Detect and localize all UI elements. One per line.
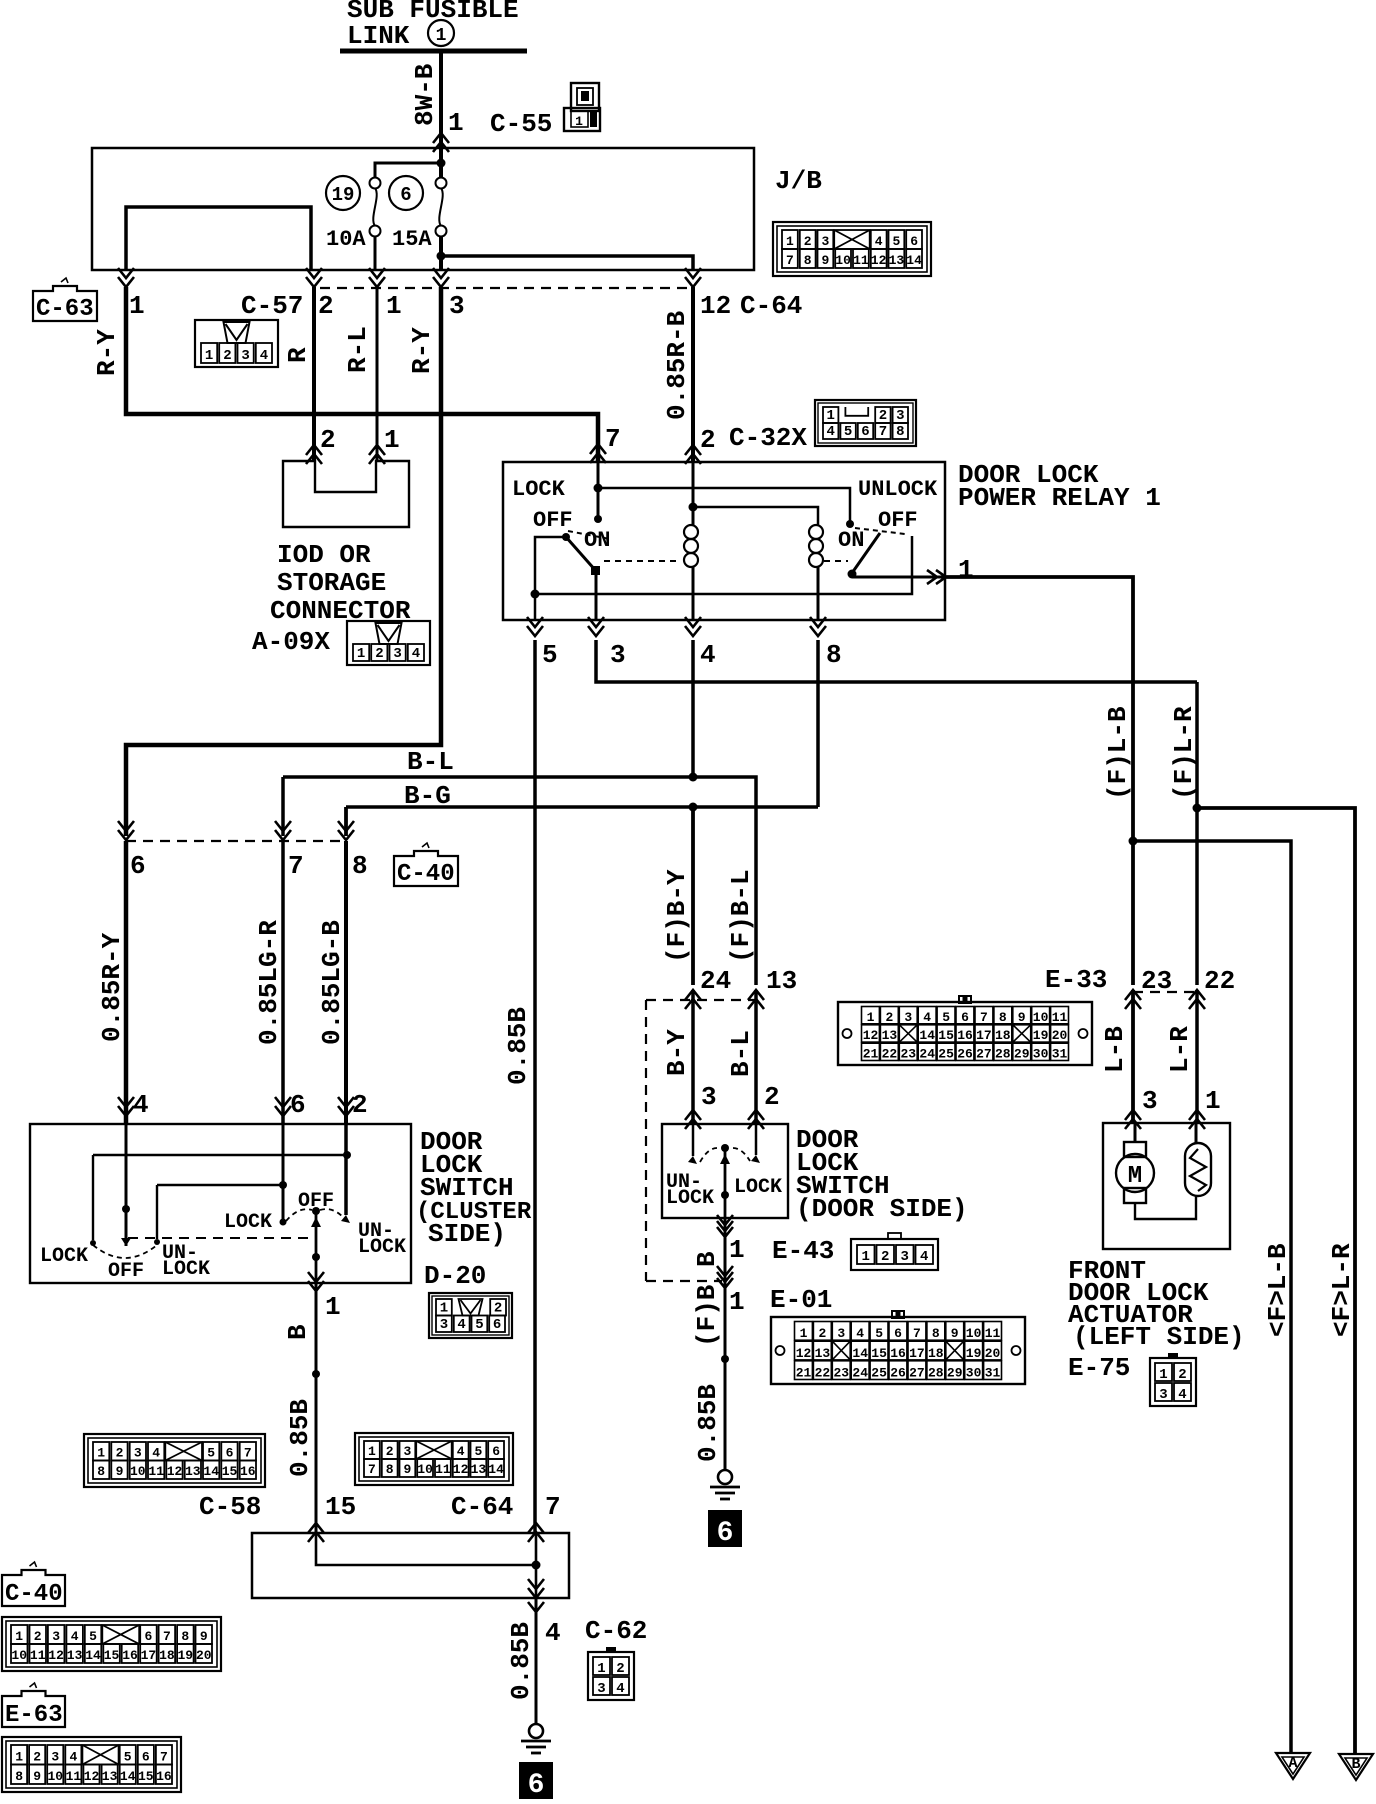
svg-text:3: 3 xyxy=(393,646,401,662)
pin number 2 xyxy=(764,1082,780,1112)
door switch travel arc left xyxy=(700,1148,717,1162)
svg-text:7: 7 xyxy=(545,1492,561,1522)
label ACTUATOR xyxy=(1068,1300,1193,1330)
svg-text:5: 5 xyxy=(942,1010,950,1025)
svg-text:3: 3 xyxy=(52,1629,60,1644)
svg-text:OFF: OFF xyxy=(533,508,573,533)
label SWITCH (door side) xyxy=(796,1171,890,1201)
svg-text:8: 8 xyxy=(386,1462,394,1477)
svg-text:2: 2 xyxy=(320,425,336,455)
internal wire pin7 down xyxy=(535,1533,538,1598)
IOD pin number 2 xyxy=(320,425,336,455)
svg-text:9: 9 xyxy=(33,1769,41,1784)
svg-text:LOCK: LOCK xyxy=(666,1187,714,1210)
cluster right travel arc left xyxy=(286,1209,312,1221)
svg-text:21: 21 xyxy=(796,1366,812,1381)
svg-text:15: 15 xyxy=(138,1769,154,1784)
svg-text:3: 3 xyxy=(821,234,829,249)
svg-text:C-62: C-62 xyxy=(585,1616,647,1646)
svg-text:3: 3 xyxy=(610,640,626,670)
relay blade to pin 3 xyxy=(595,571,598,620)
svg-text:13: 13 xyxy=(102,1769,118,1784)
svg-text:4: 4 xyxy=(700,640,716,670)
cluster wire to LOCK contact xyxy=(93,1154,347,1156)
svg-text:5: 5 xyxy=(875,1326,883,1341)
svg-text:4: 4 xyxy=(616,1681,624,1697)
ground reference 6 (bottom) xyxy=(519,1762,553,1801)
actuator internal wire xyxy=(1135,1196,1196,1219)
connector name C-64 xyxy=(740,291,802,321)
relay mech link right xyxy=(824,560,848,562)
door switch label LOCK(un) xyxy=(666,1187,714,1210)
svg-text:1: 1 xyxy=(958,555,974,585)
junction B-G to (F)B-Y xyxy=(689,803,698,812)
svg-text:20: 20 xyxy=(985,1346,1001,1361)
relay pin 1 arrow xyxy=(927,570,946,584)
door switch pin 3 arrow xyxy=(685,1110,701,1129)
svg-text:E-75: E-75 xyxy=(1068,1353,1130,1383)
svg-text:29: 29 xyxy=(947,1366,963,1381)
connector arrow pin 2 (C-57) xyxy=(306,268,322,287)
svg-text:0.85B: 0.85B xyxy=(693,1384,723,1462)
svg-text:2: 2 xyxy=(34,1629,42,1644)
branch to fuse 19 xyxy=(375,163,441,178)
svg-text:14: 14 xyxy=(488,1462,504,1477)
ground symbol (bottom) xyxy=(521,1724,551,1753)
wire 0.85LG-B upper segment xyxy=(344,807,348,836)
svg-text:E-33: E-33 xyxy=(1045,965,1107,995)
svg-text:1: 1 xyxy=(15,1750,23,1765)
svg-text:2: 2 xyxy=(764,1082,780,1112)
svg-text:10A: 10A xyxy=(326,227,366,252)
connector boundary dashed line xyxy=(320,287,687,289)
svg-text:9: 9 xyxy=(200,1629,208,1644)
wire label (F)B-L xyxy=(726,869,756,963)
C-64 pin 7 arrow xyxy=(528,1523,544,1542)
cluster pin2 wire internal xyxy=(344,1124,348,1215)
svg-text:R-L: R-L xyxy=(343,326,373,373)
connector arrow pin 13 (E-33) xyxy=(748,990,764,1009)
svg-text:2: 2 xyxy=(804,234,812,249)
svg-text:6: 6 xyxy=(528,1770,545,1801)
label SUB FUSIBLE LINK line1 xyxy=(347,0,519,25)
svg-text:18: 18 xyxy=(928,1346,944,1361)
svg-text:8W-B: 8W-B xyxy=(410,63,440,126)
svg-text:31: 31 xyxy=(1052,1047,1068,1062)
svg-text:LOCK: LOCK xyxy=(40,1245,88,1268)
svg-text:7: 7 xyxy=(980,1010,988,1025)
svg-text:R-Y: R-Y xyxy=(92,329,122,376)
svg-text:8: 8 xyxy=(352,851,368,881)
pin number 3 xyxy=(610,640,626,670)
svg-text:10: 10 xyxy=(835,253,851,268)
svg-text:E-63: E-63 xyxy=(5,1702,63,1729)
front door lock actuator box xyxy=(1103,1123,1230,1249)
svg-text:0.85LG-B: 0.85LG-B xyxy=(317,920,347,1045)
svg-text:9: 9 xyxy=(403,1462,411,1477)
svg-text:12: 12 xyxy=(84,1769,100,1784)
relay mech link left xyxy=(604,560,681,562)
relay left OFF contact wire xyxy=(535,537,566,594)
svg-text:16: 16 xyxy=(240,1464,256,1479)
relay output wire to (F)L-B xyxy=(945,577,1133,985)
svg-text:OFF: OFF xyxy=(298,1190,334,1213)
svg-text:7: 7 xyxy=(879,424,887,440)
svg-text:13: 13 xyxy=(882,1028,898,1043)
svg-text:0.85R-Y: 0.85R-Y xyxy=(97,932,127,1042)
relay left ON xyxy=(584,528,610,553)
actuator switch feed wire xyxy=(1195,1123,1198,1143)
relay pin 7 arrow xyxy=(590,444,606,463)
pin number 15 xyxy=(325,1492,356,1522)
svg-text:6: 6 xyxy=(894,1326,902,1341)
door switch pole wire xyxy=(724,1148,727,1218)
wire label (F)B xyxy=(692,1284,722,1347)
door switch pole junction xyxy=(721,1191,729,1199)
relay junction bottom bus xyxy=(531,590,540,599)
svg-text:2: 2 xyxy=(616,1661,624,1677)
connector icon C-58 xyxy=(84,1434,265,1487)
junction inside J/B xyxy=(437,159,446,168)
fuse 19 element xyxy=(370,178,381,237)
cluster left pole arrow xyxy=(121,1238,131,1246)
svg-text:1: 1 xyxy=(861,1249,869,1265)
svg-text:E-01: E-01 xyxy=(770,1285,832,1315)
svg-text:0.85B: 0.85B xyxy=(503,1007,533,1085)
svg-text:1: 1 xyxy=(440,1301,448,1317)
wire B-L horizontal and (F)B-L down xyxy=(283,777,756,985)
wire R-Y pin3 down and across xyxy=(126,287,441,836)
svg-text:2: 2 xyxy=(223,348,231,364)
off-page reference triangle A xyxy=(1276,1753,1310,1779)
svg-text:3: 3 xyxy=(403,1444,411,1459)
label FRONT xyxy=(1068,1256,1146,1286)
connector icon E-63 xyxy=(2,1737,181,1792)
connector arrow pin 8 (C-40) xyxy=(338,821,354,840)
svg-text:6: 6 xyxy=(910,234,918,249)
wire label 0.85R-Y xyxy=(97,932,127,1042)
svg-text:15: 15 xyxy=(938,1028,954,1043)
cluster label OFF left xyxy=(108,1260,144,1283)
svg-text:(F)B-Y: (F)B-Y xyxy=(662,869,692,963)
svg-text:4: 4 xyxy=(412,646,420,662)
door switch label LOCK xyxy=(734,1176,782,1199)
svg-text:4: 4 xyxy=(133,1090,149,1120)
relay label LOCK xyxy=(512,477,566,502)
wire B-L from relay pin4 xyxy=(691,640,695,777)
svg-text:2: 2 xyxy=(879,408,887,424)
svg-text:3: 3 xyxy=(440,1317,448,1333)
relay coil feed to unlock coil xyxy=(693,507,818,525)
svg-text:2: 2 xyxy=(881,1249,889,1265)
connector name C-55 xyxy=(490,109,552,139)
wire 0.85B from relay pin5 to C-64 xyxy=(533,640,537,1533)
wire B-G from relay pin8 xyxy=(816,640,820,807)
actuator motor xyxy=(1116,1142,1154,1203)
connector icon C-62 xyxy=(588,1647,634,1700)
svg-text:28: 28 xyxy=(928,1366,944,1381)
pin number 8 xyxy=(352,851,368,881)
svg-text:9: 9 xyxy=(116,1464,124,1479)
svg-text:25: 25 xyxy=(938,1047,954,1062)
svg-text:7: 7 xyxy=(288,851,304,881)
pin number 24 xyxy=(700,966,731,996)
label SIDE) xyxy=(428,1219,506,1249)
svg-text:24: 24 xyxy=(852,1366,868,1381)
svg-text:C-58: C-58 xyxy=(199,1492,261,1522)
pin number 13 xyxy=(766,966,797,996)
connector arrow C-55 pin 1 xyxy=(433,133,449,152)
svg-text:3: 3 xyxy=(51,1750,59,1765)
svg-text:16: 16 xyxy=(890,1346,906,1361)
fuse 6 number circle xyxy=(389,176,423,210)
joint box at bottom xyxy=(252,1533,569,1598)
junction inside J/B lower xyxy=(437,252,446,261)
svg-text:11: 11 xyxy=(853,253,869,268)
svg-text:1: 1 xyxy=(1159,1367,1167,1383)
svg-text:1: 1 xyxy=(729,1235,745,1265)
svg-text:15: 15 xyxy=(104,1648,120,1663)
connector arrow pin 1 (C-57) xyxy=(369,268,385,287)
svg-text:3: 3 xyxy=(837,1326,845,1341)
connector label box C-40 (bottom) xyxy=(2,1562,65,1608)
svg-text:5: 5 xyxy=(475,1317,483,1333)
actuator pin 3 arrow xyxy=(1125,1110,1141,1129)
relay bottom bus to right OFF contact xyxy=(535,536,912,594)
svg-text:C-32X: C-32X xyxy=(729,423,807,453)
connector name C-57 xyxy=(241,291,303,321)
svg-text:14: 14 xyxy=(919,1028,935,1043)
door switch pole arrow xyxy=(720,1154,730,1164)
svg-text:4: 4 xyxy=(457,1317,465,1333)
wire label <F>L-B xyxy=(1263,1243,1293,1337)
svg-text:15: 15 xyxy=(871,1346,887,1361)
pin number 4 xyxy=(133,1090,149,1120)
svg-text:3: 3 xyxy=(449,291,465,321)
connector arrow pin 22 (E-33) xyxy=(1189,990,1205,1009)
svg-text:4: 4 xyxy=(545,1618,561,1648)
pin number 1 xyxy=(386,291,402,321)
svg-text:30: 30 xyxy=(966,1366,982,1381)
svg-text:12: 12 xyxy=(700,291,731,321)
svg-text:LOCK: LOCK xyxy=(224,1211,272,1234)
fusible link bus bar xyxy=(340,49,527,54)
svg-text:4: 4 xyxy=(875,234,883,249)
wire label 0.85B (relay pin5 wire) xyxy=(503,1007,533,1085)
off-page reference triangle B xyxy=(1339,1754,1373,1780)
cluster UN-LOCK contact xyxy=(154,1239,160,1245)
cluster label LOCK(un) left xyxy=(162,1258,210,1281)
svg-text:B: B xyxy=(692,1251,722,1267)
wire label R-Y xyxy=(92,329,122,376)
svg-text:B: B xyxy=(1351,1756,1360,1773)
svg-text:3: 3 xyxy=(134,1446,142,1461)
label (DOOR SIDE) xyxy=(796,1194,968,1224)
pin number 23 xyxy=(1141,966,1172,996)
svg-text:C-63: C-63 xyxy=(36,296,94,323)
svg-text:B-G: B-G xyxy=(404,781,451,811)
svg-text:1: 1 xyxy=(826,408,834,424)
label DOOR (door side) xyxy=(796,1125,859,1155)
relay pin 5 arrow xyxy=(527,617,543,636)
svg-text:15A: 15A xyxy=(392,227,432,252)
J/B internal bus pins 1-2 xyxy=(126,207,311,270)
junction pin2 wire xyxy=(343,1151,351,1159)
svg-text:1: 1 xyxy=(436,26,447,46)
wire label L-B xyxy=(1100,1026,1130,1073)
svg-text:26: 26 xyxy=(957,1047,973,1062)
door lock power relay 1 box xyxy=(503,462,945,620)
svg-text:L-R: L-R xyxy=(1165,1026,1195,1073)
door switch travel arc right xyxy=(733,1148,750,1161)
wire label B-L xyxy=(407,747,454,777)
svg-text:10: 10 xyxy=(966,1326,982,1341)
connector name E-75 xyxy=(1068,1353,1130,1383)
svg-text:12: 12 xyxy=(871,253,887,268)
svg-text:11: 11 xyxy=(1052,1010,1068,1025)
relay output wire to pin 1 xyxy=(852,576,945,579)
svg-text:R-Y: R-Y xyxy=(407,327,437,374)
svg-text:2: 2 xyxy=(494,1301,502,1317)
svg-text:9: 9 xyxy=(951,1326,959,1341)
pin 1 label at C-55 xyxy=(448,108,464,138)
svg-text:12: 12 xyxy=(453,1462,469,1477)
wire label (F)B-Y xyxy=(662,869,692,963)
svg-text:1: 1 xyxy=(867,1010,875,1025)
relay right OFF xyxy=(878,508,918,533)
wire 0.85LG-B to cluster switch xyxy=(344,841,348,1124)
wire R to IOD pin 2 xyxy=(312,287,316,461)
pin number 12 xyxy=(700,291,731,321)
svg-text:3: 3 xyxy=(900,1249,908,1265)
svg-text:<F>L-B: <F>L-B xyxy=(1263,1243,1293,1337)
svg-text:8: 8 xyxy=(932,1326,940,1341)
svg-text:POWER RELAY 1: POWER RELAY 1 xyxy=(958,483,1161,513)
svg-text:8: 8 xyxy=(97,1464,105,1479)
svg-text:LOCK: LOCK xyxy=(512,477,566,502)
svg-text:19: 19 xyxy=(966,1346,982,1361)
svg-text:1: 1 xyxy=(368,1444,376,1459)
svg-text:20: 20 xyxy=(1052,1028,1068,1043)
relay label UNLOCK xyxy=(858,477,938,502)
svg-text:10: 10 xyxy=(47,1769,63,1784)
svg-text:8: 8 xyxy=(826,640,842,670)
svg-text:13: 13 xyxy=(67,1648,83,1663)
wire fuse19 to pin 1 xyxy=(374,236,377,270)
svg-text:OFF: OFF xyxy=(108,1260,144,1283)
svg-text:C-57: C-57 xyxy=(241,291,303,321)
svg-text:22: 22 xyxy=(815,1366,831,1381)
connector icon C-55 xyxy=(564,83,600,131)
pin number 1 (E-43) xyxy=(729,1235,745,1265)
svg-text:5: 5 xyxy=(89,1629,97,1644)
connector name C-64 (bottom) xyxy=(451,1492,513,1522)
label IOD OR xyxy=(277,540,371,570)
label A-09X xyxy=(252,627,330,657)
svg-text:7: 7 xyxy=(786,253,794,268)
svg-text:17: 17 xyxy=(976,1028,992,1043)
cluster label OFF right xyxy=(298,1190,334,1213)
connector icon D-20 xyxy=(429,1293,512,1338)
svg-text:6: 6 xyxy=(290,1090,306,1120)
fuse 6 element xyxy=(436,178,447,237)
pin number 7 xyxy=(288,851,304,881)
cluster right pole xyxy=(312,1207,320,1215)
svg-text:10: 10 xyxy=(417,1462,433,1477)
svg-text:LOCK: LOCK xyxy=(358,1236,406,1259)
svg-text:14: 14 xyxy=(120,1769,136,1784)
svg-text:7: 7 xyxy=(163,1629,171,1644)
wire label B (door) xyxy=(692,1251,722,1267)
connector arrow E-43 pin 1 xyxy=(717,1215,733,1237)
fuse 19 number circle xyxy=(326,176,360,210)
svg-text:2: 2 xyxy=(885,1010,893,1025)
door switch label UN- xyxy=(666,1171,702,1194)
svg-text:7: 7 xyxy=(913,1326,921,1341)
svg-text:C-64: C-64 xyxy=(740,291,802,321)
cluster label LOCK left xyxy=(40,1245,88,1268)
cluster LOCK contact drop xyxy=(92,1155,94,1240)
fuse 19 rating 10A xyxy=(326,227,366,252)
svg-text:24: 24 xyxy=(919,1047,935,1062)
svg-text:0.85LG-R: 0.85LG-R xyxy=(254,920,284,1045)
svg-text:11: 11 xyxy=(435,1462,451,1477)
label DOOR (cluster) xyxy=(420,1127,483,1157)
relay left OFF contact dot xyxy=(562,533,570,541)
svg-text:2: 2 xyxy=(116,1446,124,1461)
door switch pin3 internal wire xyxy=(692,1124,695,1156)
relay pin 8 arrow xyxy=(810,617,826,636)
svg-text:14: 14 xyxy=(906,253,922,268)
relay pin7 internal wire xyxy=(597,462,600,519)
relay junction top bus xyxy=(594,484,603,493)
branch to pin 12 xyxy=(441,256,693,270)
pin number 6 xyxy=(290,1090,306,1120)
svg-text:3: 3 xyxy=(701,1082,717,1112)
svg-text:21: 21 xyxy=(863,1047,879,1062)
svg-text:3: 3 xyxy=(1159,1387,1167,1403)
connector icon E-01 xyxy=(771,1311,1025,1384)
cluster pin6 wire internal xyxy=(282,1124,285,1222)
connector icon A-09X xyxy=(347,621,430,665)
relay left switch blade xyxy=(566,537,600,575)
svg-text:1: 1 xyxy=(800,1326,808,1341)
cluster left pole junction xyxy=(122,1205,130,1213)
IOD or storage connector box xyxy=(283,461,409,527)
relay right ON xyxy=(838,528,864,553)
svg-text:7: 7 xyxy=(368,1462,376,1477)
svg-text:10: 10 xyxy=(11,1648,27,1663)
svg-text:8: 8 xyxy=(896,424,904,440)
svg-text:7: 7 xyxy=(605,424,621,454)
svg-text:1: 1 xyxy=(15,1629,23,1644)
connector arrow pin 24 (E-33) xyxy=(685,990,701,1009)
connector arrow pin 12 (C-64) xyxy=(685,268,701,287)
connector label box C-63 xyxy=(33,278,97,323)
svg-text:19: 19 xyxy=(177,1648,193,1663)
cluster UN-LOCK contact drop xyxy=(156,1185,158,1239)
svg-text:12: 12 xyxy=(863,1028,879,1043)
fuse 6 rating 15A xyxy=(392,227,432,252)
label DOOR LOCK (actuator) xyxy=(1068,1278,1209,1308)
svg-text:13: 13 xyxy=(815,1346,831,1361)
label DOOR LOCK xyxy=(958,460,1099,490)
relay left OFF xyxy=(533,508,573,533)
wire R-Y from pin1 to relay pin7 xyxy=(126,287,598,462)
svg-text:1: 1 xyxy=(575,114,583,129)
circled 1 (fusible link number) xyxy=(428,20,454,46)
door switch common pole xyxy=(721,1144,729,1152)
